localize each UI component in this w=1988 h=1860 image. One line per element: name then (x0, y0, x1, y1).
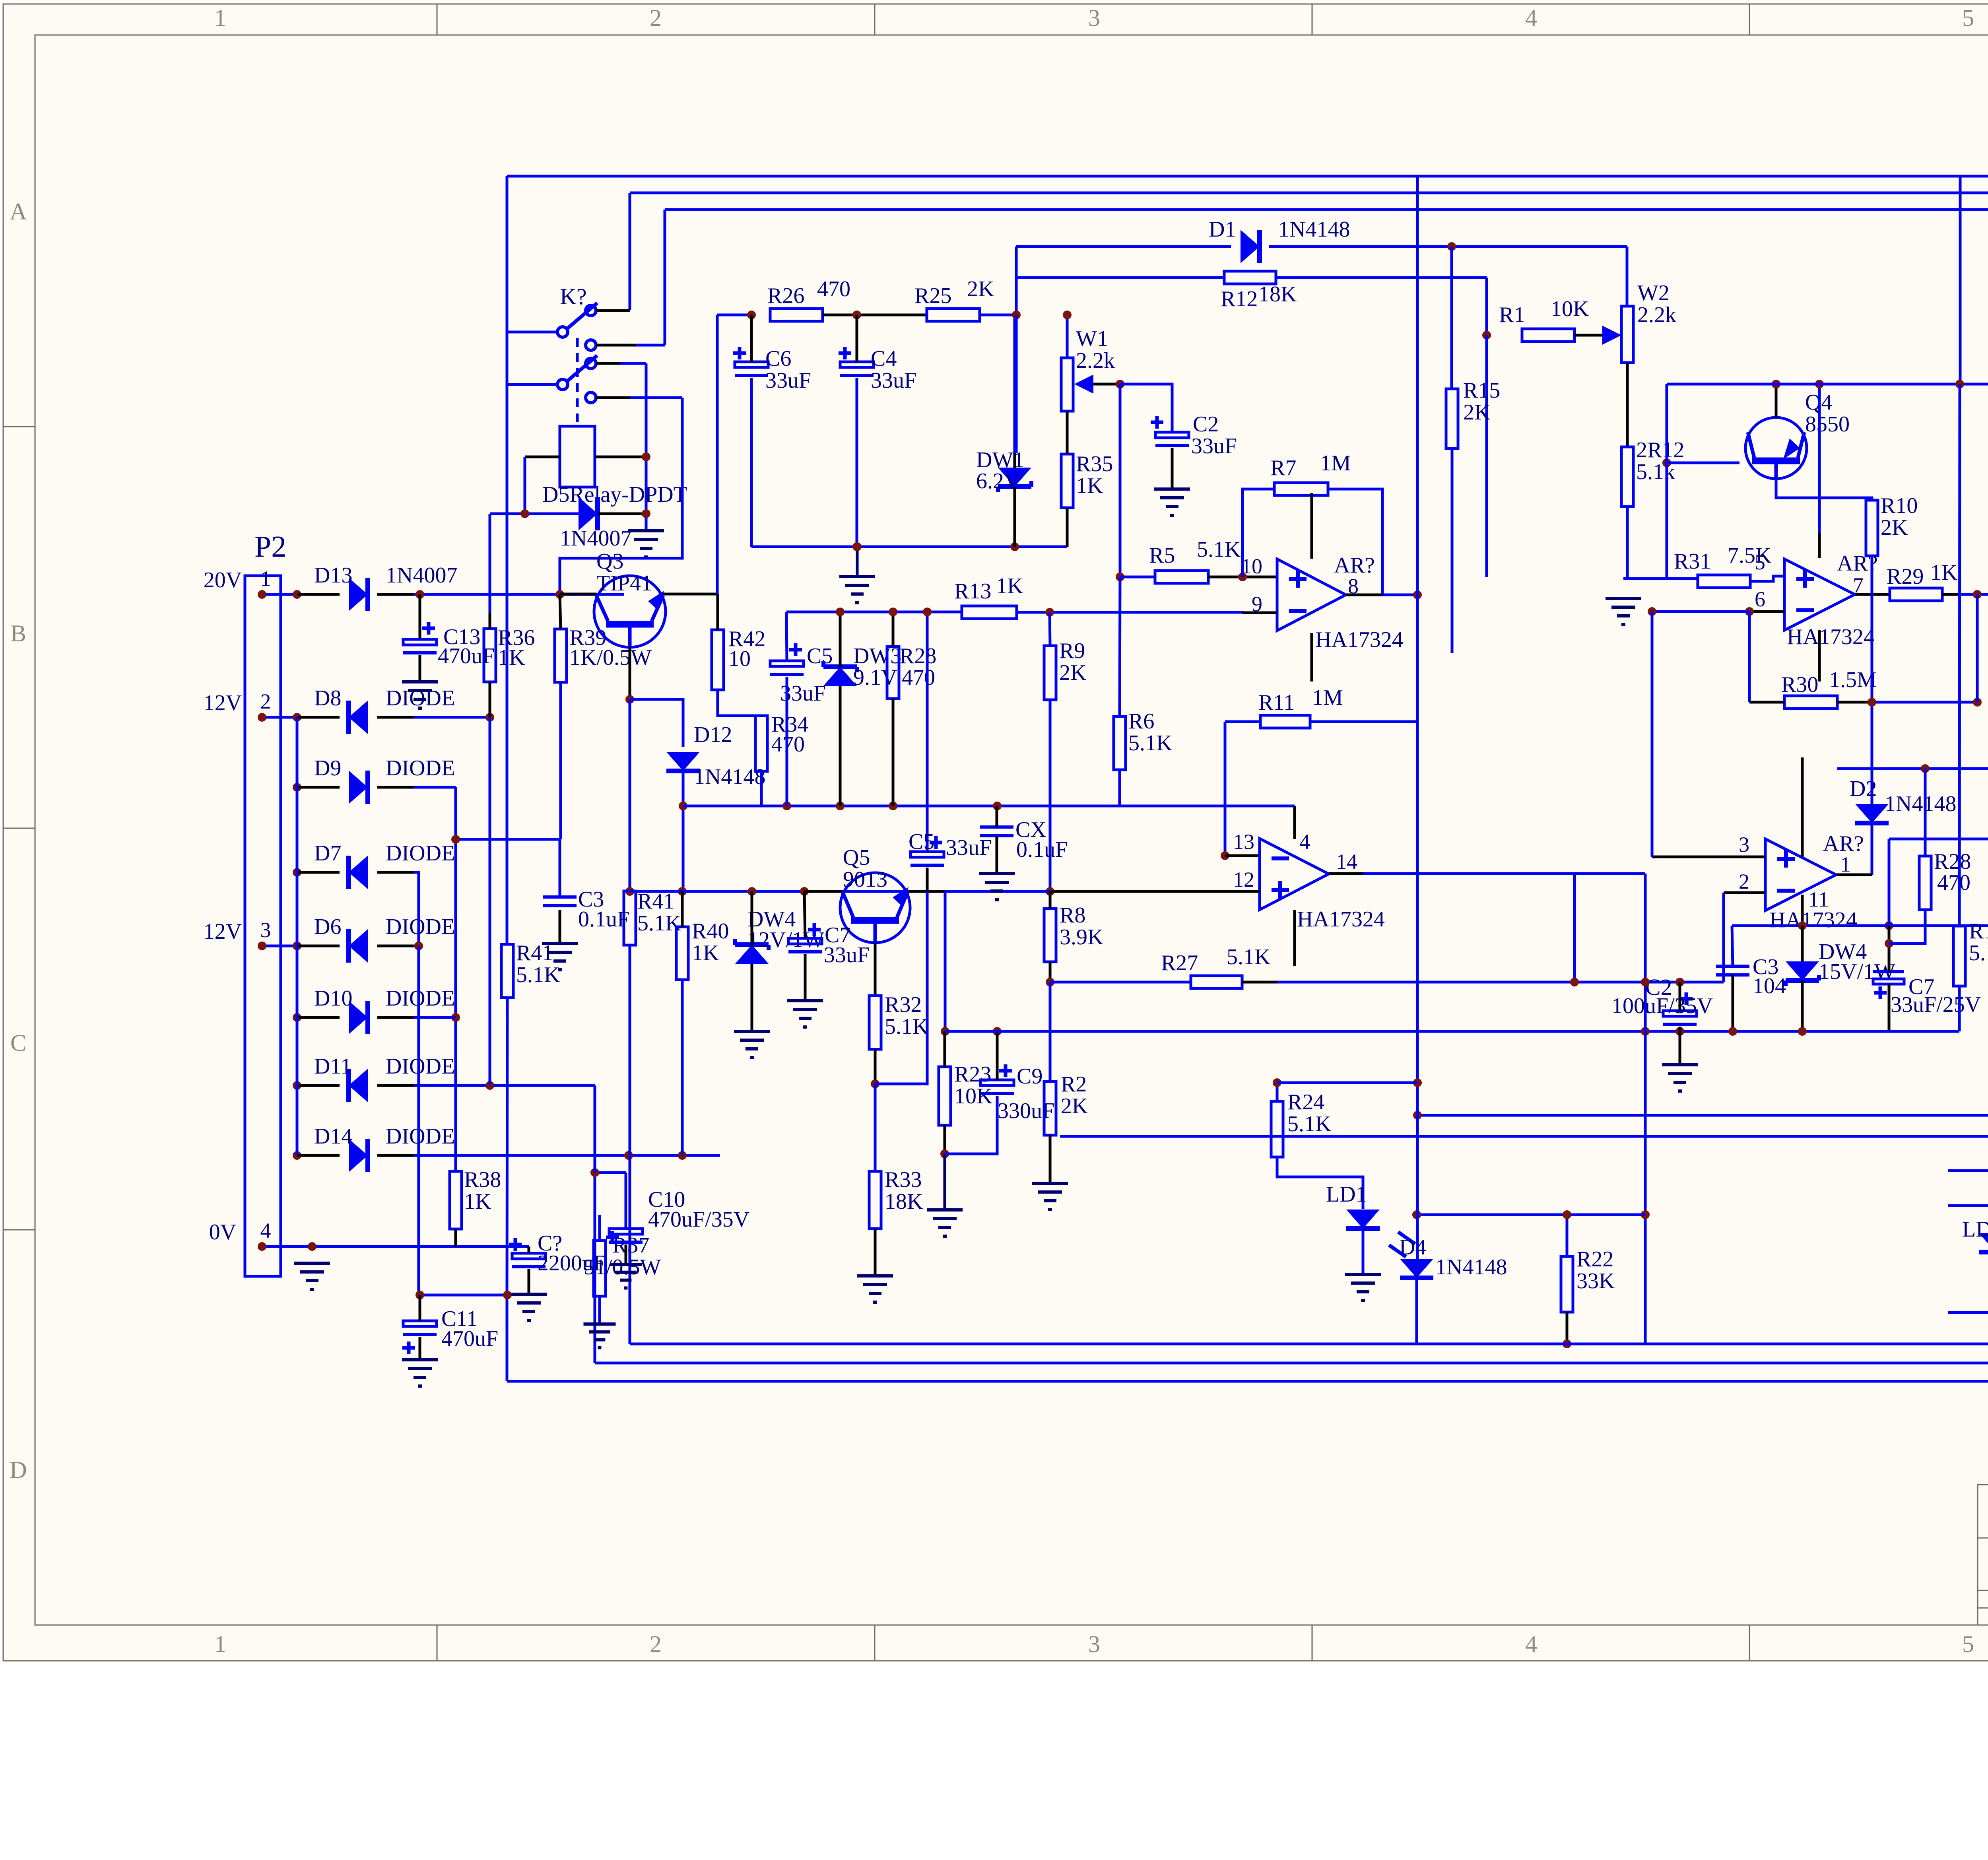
label AR?3 (1823, 831, 1864, 876)
wire pin1 out (1836, 874, 1872, 876)
resistor R8 (1044, 903, 1103, 962)
wire C2b gnd (1679, 1031, 1681, 1065)
wire R31 right (1750, 576, 1784, 581)
junction R29 bus (1973, 590, 1982, 599)
wire R28a bot (892, 699, 895, 806)
wire C4a bot (856, 378, 858, 547)
svg-text:R32: R32 (885, 992, 922, 1017)
svg-text:0.1uF: 0.1uF (578, 907, 629, 932)
wire CX top (996, 806, 998, 827)
junction row3055 b (1563, 1210, 1571, 1219)
wire row2110 (1889, 838, 1988, 841)
wire bus 3565 low (1416, 874, 1419, 1215)
wire R5 right (1208, 576, 1277, 579)
ground DW4a (734, 1031, 770, 1058)
wire relay left drop (489, 514, 491, 613)
svg-text:D12: D12 (694, 722, 732, 747)
op-amp AR? (8) (1277, 559, 1346, 631)
capacitor Cq 2200uF (509, 1231, 606, 1276)
wire D1 left (1016, 245, 1231, 248)
capacitor C13 (403, 594, 495, 682)
wire Q5 base (804, 890, 842, 893)
svg-text:3: 3 (260, 918, 271, 942)
wire C5a bot (786, 677, 788, 806)
resistor R35 (1061, 452, 1113, 508)
svg-text:2.2k: 2.2k (1637, 303, 1676, 327)
svg-text:W2: W2 (1637, 281, 1670, 305)
diode D1 (1209, 217, 1350, 263)
wire C7b bot (1888, 984, 1891, 1031)
svg-text:R29: R29 (1887, 564, 1924, 589)
resistor R6 (1114, 709, 1172, 770)
svg-text:0.1uF: 0.1uF (1016, 837, 1068, 862)
wire C11 top (419, 1295, 421, 1321)
wire 4138 vert (1644, 874, 1647, 1344)
wire R7 left (1242, 489, 1274, 577)
ground R23 (927, 1210, 963, 1236)
wire R32 bot (874, 1049, 877, 1084)
wire C5b riser (926, 612, 929, 852)
wire C9 top (996, 1031, 999, 1080)
junction rail1375 C4 (852, 542, 861, 551)
svg-text:33uF: 33uF (1191, 434, 1237, 458)
svg-text:HA17324: HA17324 (1297, 907, 1385, 932)
wire trunk top 3 (665, 208, 1988, 211)
diode D2 (1850, 777, 1956, 823)
wire C3a bot (559, 910, 561, 944)
junction R9 bot (1046, 887, 1054, 896)
wire coil right pin (595, 456, 646, 458)
diode D14 (293, 1124, 455, 1172)
svg-text:1.5M: 1.5M (1829, 668, 1877, 692)
junction C7b 2368 (1885, 939, 1893, 948)
svg-text:R41: R41 (637, 889, 674, 914)
svg-text:DIODE: DIODE (386, 841, 455, 866)
junction r1539 C5b (923, 608, 932, 616)
capacitor C7a (788, 923, 870, 967)
svg-text:B: B (10, 620, 26, 647)
svg-text:R26: R26 (767, 283, 804, 308)
wire R32bot right (875, 891, 927, 1084)
junction row2594 b (993, 1027, 1002, 1036)
svg-text:W1: W1 (1076, 326, 1108, 351)
wire P3pin3 link (1888, 839, 1891, 926)
capacitor C5a (770, 643, 833, 706)
wire W1 top (1066, 315, 1069, 358)
svg-text:Q3: Q3 (596, 549, 623, 574)
junction D2 R30 (1868, 698, 1876, 707)
wire R41b bot (507, 998, 507, 1295)
wire D6 row right (414, 945, 419, 947)
svg-text:R13: R13 (954, 579, 991, 604)
wire R36 top (489, 613, 491, 629)
wire C7a bot (804, 954, 807, 1001)
svg-text:1: 1 (1840, 852, 1851, 876)
junction 2556-792 (1012, 311, 1021, 319)
label pin12 t (1233, 868, 1254, 891)
junction R1 left (1482, 331, 1491, 340)
zener DW4a (735, 907, 824, 964)
wire K? poleB drop (507, 383, 558, 386)
junction pin4 (258, 1242, 266, 1251)
label pin11 (1808, 887, 1829, 911)
wire 2R12 bot (1626, 507, 1629, 579)
wire DW1 bot (1013, 487, 1016, 547)
wire trunk3 left drop (664, 210, 666, 345)
label Q5 (843, 845, 887, 892)
svg-text:R6: R6 (1128, 709, 1154, 734)
wire R11-pin13 (1224, 722, 1227, 856)
ground R33 (857, 1276, 893, 1302)
svg-text:20V: 20V (204, 568, 242, 592)
wire DW4a bot (751, 964, 753, 1031)
junction D14-R41 (624, 1151, 633, 1160)
junction D14-1716 (678, 1151, 687, 1160)
svg-text:1K: 1K (1930, 560, 1957, 585)
resistor R22 (1561, 1247, 1615, 1312)
wire R30 right (1837, 701, 1977, 704)
wire W2 bot (1626, 363, 1629, 447)
wire bus 4973 (1976, 594, 1979, 702)
ground R37 (584, 1324, 616, 1347)
wire C3b bot (1732, 975, 1734, 1031)
svg-text:R12: R12 (1221, 287, 1258, 311)
svg-text:1K: 1K (1076, 474, 1103, 498)
wire R23 bot (944, 1125, 946, 1154)
svg-text:DIODE: DIODE (386, 914, 455, 939)
wire pin7 out (1855, 593, 1890, 596)
wire R12 right (1276, 276, 1487, 279)
svg-text:R28: R28 (899, 644, 936, 668)
svg-text:D8: D8 (314, 686, 341, 711)
ground C2a (1154, 489, 1190, 515)
junction r2027 DW3 (836, 802, 845, 810)
wire Q5c drop (944, 1030, 947, 1033)
wire R23 gnd (944, 1154, 946, 1210)
svg-text:5.1K: 5.1K (1197, 537, 1241, 562)
resistor R41b (501, 941, 560, 998)
op-amp AR? (7) (1784, 559, 1855, 630)
wire rail 3474 (507, 1380, 1988, 1383)
wire R13 right (1017, 612, 1242, 613)
wire R42 top (716, 594, 719, 630)
wire R36 bot (489, 682, 491, 717)
wire R24 bot (1277, 1157, 1363, 1209)
junction Q4 top (1772, 380, 1780, 388)
junction r1539 R28a (889, 608, 897, 616)
zener DW1 (976, 448, 1031, 493)
diode D12 (666, 752, 700, 771)
wire D5 row (490, 513, 646, 515)
wire R17 bot (1958, 986, 1961, 1031)
svg-text:D: D (10, 1457, 27, 1483)
svg-text:5.1K: 5.1K (1227, 945, 1270, 969)
svg-text:5.1K: 5.1K (1287, 1112, 1331, 1136)
svg-text:HA17324: HA17324 (1315, 627, 1403, 652)
wire pin14 drop (1573, 874, 1576, 982)
wire 2552 drop (1013, 315, 1016, 453)
svg-text:R17: R17 (1969, 919, 1988, 944)
capacitor C10 (606, 1187, 749, 1244)
wire R8 bot (1049, 962, 1052, 982)
svg-text:R23: R23 (954, 1062, 991, 1087)
wire vertical 1275 poleB down (506, 332, 509, 944)
svg-text:R15: R15 (1463, 378, 1500, 403)
wire row1933 (1837, 767, 1988, 770)
junction D5 left (520, 509, 529, 518)
junction r2593 b (1675, 1027, 1684, 1036)
wire DW3 bot (839, 686, 842, 806)
relay coil D5Relay-DPDT (560, 426, 595, 487)
label AR?1 (1334, 553, 1375, 598)
wire rail2858 (1060, 1135, 1988, 1138)
title block (1978, 1485, 1988, 1626)
wire C5b bot (926, 868, 929, 891)
wire trunk1 left drop (507, 176, 558, 332)
junction 4138 2470 (1641, 978, 1650, 986)
svg-text:R10: R10 (1881, 493, 1918, 518)
svg-text:D14: D14 (314, 1124, 352, 1149)
wire Q4 bot (1776, 479, 1872, 500)
wire W2 top (1626, 247, 1629, 306)
wire R9 top (1050, 612, 1050, 646)
wire wiper down (1119, 384, 1122, 577)
junction R26 left (747, 311, 756, 319)
wire R24 top (1276, 1083, 1279, 1101)
svg-text:5.1K: 5.1K (1969, 941, 1988, 965)
wire DW4b top (1801, 926, 1804, 961)
wiper W2 (1602, 326, 1621, 345)
svg-text:12: 12 (1233, 868, 1254, 891)
svg-text:18K: 18K (885, 1189, 923, 1214)
wire opamp2 vtop (1818, 384, 1821, 558)
junction pin13 (1221, 851, 1229, 860)
label pin4 t (1299, 830, 1310, 854)
wire D14 row right (414, 1154, 720, 1157)
junction 3565 R24 (1413, 1078, 1422, 1087)
label AR?2 (1837, 551, 1878, 597)
wire R26 feed (717, 314, 751, 316)
wire pin3 vert (1651, 612, 1654, 857)
pot W2 (1621, 281, 1676, 363)
wire R11 right (1310, 720, 1417, 723)
diode D13 (204, 563, 458, 611)
resistor R37 (584, 1233, 661, 1296)
junction 0V gnd (308, 1242, 316, 1251)
wire C9 bot (945, 1096, 997, 1154)
svg-text:100uF/35V: 100uF/35V (1611, 994, 1713, 1018)
label pin4 (260, 1219, 271, 1243)
svg-text:C5: C5 (909, 829, 934, 854)
wire R20 left (1948, 1169, 1988, 1172)
resistor R13 (954, 574, 1023, 619)
svg-text:2K: 2K (967, 277, 994, 301)
svg-text:DIODE: DIODE (386, 756, 455, 781)
wire C10 top (625, 1173, 627, 1229)
svg-text:4: 4 (1525, 1631, 1537, 1657)
svg-text:5: 5 (1755, 550, 1765, 574)
wire Q5 emit (874, 943, 877, 996)
svg-text:R8: R8 (1060, 903, 1085, 928)
wire R35 top (1066, 411, 1069, 454)
wire R2 bot (1049, 1135, 1052, 1183)
wire R22 top (1566, 1215, 1569, 1256)
wire bus3565 ext (1416, 1215, 1419, 1259)
ground C2b (1662, 1065, 1698, 1091)
wire R39 bot (559, 682, 562, 839)
wire wiper-C2 (1120, 384, 1172, 432)
svg-text:R27: R27 (1161, 951, 1198, 975)
resistor R7 (1270, 451, 1351, 495)
wire opamp4 vbot (1801, 895, 1804, 926)
capacitor CX (980, 817, 1068, 862)
svg-text:1K: 1K (498, 645, 525, 670)
wire R30 left (1749, 701, 1784, 704)
svg-text:12V: 12V (204, 691, 242, 715)
junction pin6 4155 (1648, 607, 1656, 616)
label HA17324 4 (1769, 908, 1857, 932)
svg-text:Q5: Q5 (843, 845, 870, 870)
op-amp AR? (1) (1765, 839, 1836, 911)
wire R29 right (1942, 593, 1988, 596)
svg-text:R33: R33 (885, 1167, 922, 1192)
wire R33 bot (874, 1229, 877, 1276)
junction coil right (642, 452, 650, 461)
diode D5 (579, 497, 598, 530)
svg-text:LD2: LD2 (1962, 1217, 1988, 1242)
wire rail2805 (1417, 1115, 1988, 1344)
wire rail 3428 (595, 1362, 1988, 1365)
resistor R30 (1781, 668, 1877, 709)
svg-text:D11: D11 (314, 1054, 351, 1079)
label pin3 (1739, 833, 1749, 856)
LED LD1 (1326, 1182, 1415, 1257)
resistor R29 (1887, 560, 1957, 601)
wire DW3 top (839, 612, 842, 667)
wire Q3e to D12 (630, 699, 683, 747)
wire row3055 (1417, 1213, 1645, 1216)
junction R5-R7 (1238, 573, 1247, 581)
resistor R27 (1161, 945, 1270, 988)
svg-text:D1: D1 (1209, 217, 1236, 242)
resistor R24 (1271, 1090, 1331, 1157)
svg-text:R1: R1 (1499, 303, 1525, 327)
label HA17324 3 (1787, 625, 1875, 649)
svg-text:8550: 8550 (1805, 412, 1850, 437)
wire D11 row right (414, 1084, 595, 1087)
junction r2027 CX (993, 802, 1002, 810)
wire R38 bot (454, 1229, 457, 1246)
svg-text:D5Relay-DPDT: D5Relay-DPDT (542, 482, 687, 507)
svg-text:HA17324: HA17324 (1787, 625, 1875, 649)
label pin13 t (1233, 830, 1254, 854)
junction W1 wiper (1116, 380, 1124, 388)
wire opamp1 vtop (1310, 493, 1313, 559)
ground LD1 (1345, 1274, 1381, 1301)
wire opamp1 vbot (1310, 633, 1313, 681)
diode D8 (204, 686, 455, 734)
junction out2328 (1885, 921, 1893, 930)
wire trunk top 2 (630, 192, 1988, 194)
resistor R42 (712, 627, 765, 690)
wire R28b top (1924, 769, 1927, 856)
junction Q4 base node (1662, 458, 1671, 467)
wire D3 row (1948, 1204, 1988, 1207)
svg-text:10: 10 (1241, 554, 1262, 578)
svg-text:0V: 0V (209, 1220, 236, 1245)
svg-text:3: 3 (1088, 1631, 1100, 1657)
wire R12 left (1016, 276, 1224, 279)
svg-text:1K: 1K (464, 1189, 491, 1214)
svg-text:2: 2 (260, 689, 271, 713)
svg-text:18K: 18K (1258, 282, 1297, 307)
wire Q5 coll drop (944, 891, 947, 1031)
resistor R38 (450, 1167, 501, 1229)
wire pin14 out (1329, 872, 1645, 875)
label pin6 (1755, 587, 1765, 611)
resistor R28b (1919, 849, 1971, 910)
wire R27 left (1050, 981, 1191, 984)
svg-text:2: 2 (650, 1631, 662, 1657)
svg-text:51/0.5W: 51/0.5W (584, 1255, 661, 1279)
junction C2 top (1675, 978, 1684, 986)
svg-text:1: 1 (214, 1631, 226, 1657)
wire pin12 (1050, 890, 1260, 893)
svg-text:D4: D4 (1399, 1235, 1426, 1260)
wire R37 bot (598, 1296, 601, 1324)
svg-text:470uF/35V: 470uF/35V (648, 1207, 749, 1232)
junction row3257 a (415, 1291, 424, 1299)
wire rail 3380 (630, 1343, 1988, 1345)
wire D10 row right (414, 1016, 456, 1019)
zener DW3 (823, 644, 901, 690)
wire D7 row right (414, 872, 419, 944)
wire trunk top 1 (507, 175, 1988, 178)
label HA17324 1 (1315, 627, 1403, 652)
junction r2593 d (1798, 1027, 1807, 1036)
diode D6 (204, 914, 455, 963)
svg-text:9013: 9013 (843, 867, 887, 892)
junction rail2805 bus (1413, 1111, 1422, 1120)
svg-text:10: 10 (728, 647, 751, 671)
wire R2 top (1049, 982, 1052, 1081)
resistor R36 (484, 625, 535, 682)
wire C4a top (856, 315, 858, 362)
transistor Q4 8550 (1745, 417, 1807, 479)
wire rail 1375 (751, 546, 1067, 548)
svg-text:470uF: 470uF (438, 644, 495, 668)
svg-text:470: 470 (817, 277, 850, 301)
wire D9 drop R38 (454, 787, 457, 1171)
resistor R32 (869, 992, 928, 1049)
wire DW4a top (751, 891, 753, 945)
wire row3257 (420, 1294, 507, 1297)
wire bus 4930v (1959, 176, 1962, 384)
svg-text:R25: R25 (914, 283, 951, 308)
wire pin9 (1242, 612, 1277, 614)
wire D9 row right (414, 786, 456, 789)
wire R9 bot (1049, 700, 1052, 891)
junction D1-3651 (1447, 242, 1456, 251)
resistor R41a (624, 889, 681, 945)
junction rail1375 DW1 (1010, 542, 1019, 551)
wire rail 2594 (945, 1030, 1959, 1033)
ground R31 (1606, 598, 1641, 625)
svg-text:12V: 12V (204, 919, 242, 944)
label 0V (209, 1220, 236, 1245)
svg-text:5.1K: 5.1K (885, 1014, 928, 1039)
svg-text:470uF: 470uF (441, 1326, 498, 1351)
